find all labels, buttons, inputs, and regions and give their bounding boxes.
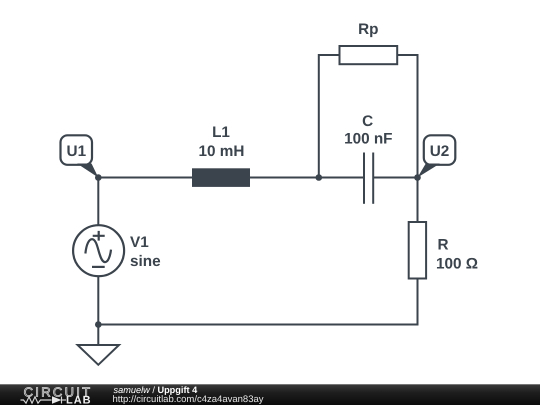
svg-text:10 mH: 10 mH xyxy=(199,143,245,160)
svg-text:U1: U1 xyxy=(67,143,87,160)
svg-text:sine: sine xyxy=(130,253,161,270)
svg-text:100 nF: 100 nF xyxy=(344,131,392,148)
svg-text:LAB: LAB xyxy=(66,395,92,405)
svg-text:U2: U2 xyxy=(430,143,450,160)
svg-text:http://circuitlab.com/c4za4ava: http://circuitlab.com/c4za4avan83ay xyxy=(113,394,264,405)
svg-text:R: R xyxy=(438,237,449,254)
svg-text:C: C xyxy=(362,113,373,130)
svg-text:Rp: Rp xyxy=(358,21,378,38)
svg-text:L1: L1 xyxy=(212,124,230,141)
svg-text:V1: V1 xyxy=(130,234,149,251)
svg-text:100 Ω: 100 Ω xyxy=(436,256,478,273)
